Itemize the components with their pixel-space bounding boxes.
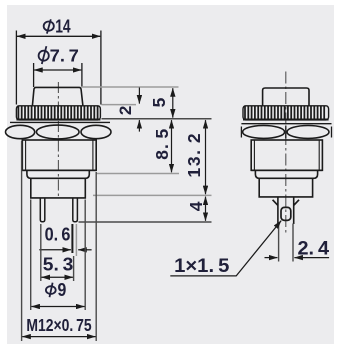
svg-text:5. 3: 5. 3 (43, 254, 74, 274)
base (31, 178, 86, 198)
body bottom edge (side view) (251, 169, 322, 171)
hex nut lobe right (side view) (287, 126, 329, 139)
dim 4 arrow (205, 197, 207, 221)
dim 5.3 line (42, 276, 73, 278)
knurl bottom thick edge (16, 119, 100, 121)
extension line pin tips (79, 221, 212, 223)
hex nut outer corner right (331, 127, 333, 138)
dim 5 arrow (172, 88, 174, 117)
thread inner line left (25, 140, 27, 170)
dim 13.2 arrow (205, 120, 207, 194)
shoulder step (side view) (255, 170, 317, 178)
knurled ring (16, 106, 100, 120)
phi symbol of Ø7.7 (39, 51, 49, 61)
hex nut center corner edge (285, 126, 287, 139)
hex nut outer corner left (240, 127, 242, 138)
centerline left view (57, 82, 59, 198)
dim Ø9 line (31, 306, 84, 308)
extension lines 5.3 (pin centers) (40, 224, 42, 281)
svg-text:14: 14 (55, 15, 71, 36)
hex nut right lobe (81, 125, 111, 138)
knurled ring (side view) (243, 106, 329, 120)
extension lines 2.4 (tab edges) (278, 224, 280, 262)
shoulder step (27, 170, 89, 178)
extension line knurl top (102, 104, 137, 106)
pin 1 (left terminal) (40, 198, 45, 222)
pin 2 (right terminal) (73, 198, 78, 222)
svg-text:4: 4 (186, 201, 206, 211)
hex nut top face line (side view) (241, 123, 331, 125)
dim Ø14 extension lines (15, 31, 17, 105)
body bottom edge (22, 169, 96, 171)
dim M12x0.75 line (22, 336, 95, 338)
extension line base bottom right (93, 194, 212, 196)
cap (side view) (263, 88, 309, 106)
hex nut middle lobe (36, 125, 79, 139)
svg-text:5: 5 (149, 97, 169, 107)
dim 2.4 arrows (265, 257, 278, 259)
hex nut top face line (10, 121, 110, 123)
extension line body bottom right (96, 173, 179, 175)
svg-text:13. 2: 13. 2 (184, 134, 204, 178)
dim Ø7.7 extension lines (33, 63, 35, 87)
svg-text:M12×0. 75: M12×0. 75 (26, 315, 91, 335)
left view: push button switch front view (16, 82, 100, 198)
extension line cap top (81, 86, 179, 88)
base (side view) (259, 178, 312, 197)
threaded body (22, 140, 96, 170)
dim Ø7.7 line (34, 69, 81, 71)
hole 1x1.5 in tab (281, 207, 291, 220)
extension lines Ø9 (base edges) (30, 200, 32, 311)
extension lines 0.6 (right pin edges) (71, 224, 73, 253)
leader line 1x1.5 (170, 221, 281, 276)
svg-text:9: 9 (58, 280, 67, 300)
knurl hatching (18, 106, 97, 119)
button cap (32, 87, 83, 105)
thread inner line left (side view) (253, 140, 255, 170)
centerline right view (285, 72, 287, 235)
knurl hatching right (245, 106, 324, 119)
tab shoulder left (273, 200, 278, 205)
dim 8.5 arrow (171, 120, 173, 172)
terminal tab with hole (277, 197, 279, 224)
knurl bottom thick edge (side view) (243, 119, 329, 121)
svg-text:1×1. 5: 1×1. 5 (174, 256, 230, 277)
extension lines M12 (body edges) (21, 141, 23, 341)
extension line knurl bottom (102, 118, 212, 120)
hex nut lobe left (side view) (243, 126, 285, 139)
body (side view) (251, 140, 322, 170)
tab shoulder right (294, 200, 299, 205)
svg-text:0. 6: 0. 6 (45, 225, 71, 245)
phi symbol of Ø9 (46, 286, 56, 294)
phi symbol of Ø14 (44, 22, 54, 31)
hex nut left lobe (6, 125, 35, 138)
svg-text:2. 4: 2. 4 (298, 239, 330, 260)
dim 2 arrows (138, 88, 140, 104)
right view: push button switch side view (243, 72, 329, 235)
svg-text:7. 7: 7. 7 (50, 45, 79, 65)
thread inner line right (92, 140, 94, 170)
dim Ø14 line (17, 35, 100, 37)
dim 0.6 arrows (39, 249, 71, 251)
thread inner line right (side view) (318, 140, 320, 170)
svg-text:2: 2 (116, 106, 135, 115)
